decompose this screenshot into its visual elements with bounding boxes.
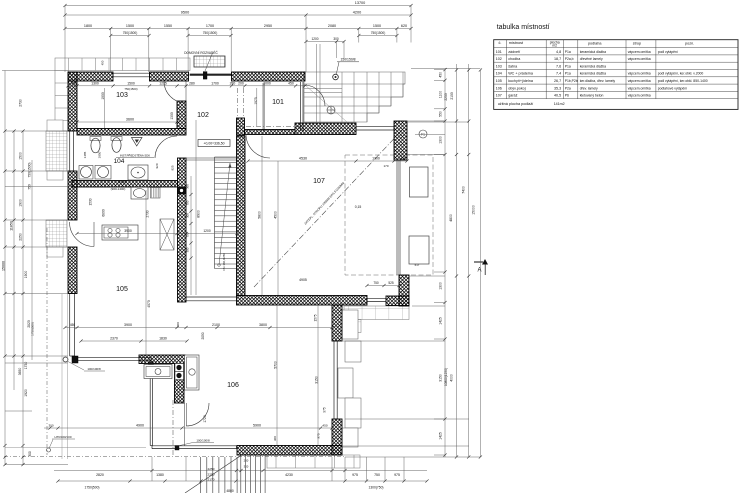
svg-text:vápcem.omítka: vápcem.omítka — [628, 57, 651, 61]
svg-text:4230: 4230 — [285, 473, 293, 477]
svg-text:šatna: šatna — [508, 64, 518, 68]
svg-text:975: 975 — [317, 433, 321, 438]
svg-text:1530: 1530 — [89, 198, 93, 205]
svg-text:dřev. lamely: dřev. lamely — [580, 86, 598, 90]
svg-text:100/100/8: 100/100/8 — [196, 439, 210, 443]
svg-text:450: 450 — [101, 60, 105, 65]
svg-text:170: 170 — [383, 164, 388, 168]
svg-text:975: 975 — [323, 407, 327, 413]
svg-text:200: 200 — [238, 81, 244, 85]
svg-text:4200: 4200 — [353, 10, 361, 14]
svg-text:vápcem.omítka: vápcem.omítka — [628, 79, 651, 83]
svg-text:6800: 6800 — [102, 209, 106, 217]
svg-text:4530: 4530 — [299, 156, 307, 160]
svg-text:4500: 4500 — [274, 211, 278, 219]
svg-text:2100: 2100 — [450, 92, 454, 100]
svg-text:2250: 2250 — [208, 473, 215, 477]
svg-text:2820: 2820 — [96, 473, 104, 477]
svg-text:1500: 1500 — [373, 24, 381, 28]
svg-text:m2: m2 — [552, 44, 557, 48]
svg-text:104: 104 — [496, 72, 502, 76]
svg-text:podl vytápění, ker.obkl. v.200: podl vytápění, ker.obkl. v.2000 — [658, 72, 704, 76]
svg-text:2950: 2950 — [264, 24, 272, 28]
svg-text:1750(500): 1750(500) — [84, 486, 99, 490]
svg-text:tabulka místností: tabulka místností — [497, 24, 550, 31]
svg-text:INST.PŘEDSTĚNA SDK: INST.PŘEDSTĚNA SDK — [120, 153, 150, 158]
svg-text:2730: 2730 — [146, 210, 150, 217]
svg-text:1200: 1200 — [203, 229, 211, 233]
svg-text:2250: 2250 — [444, 93, 448, 101]
svg-text:5800: 5800 — [258, 211, 262, 219]
svg-text:1900: 1900 — [24, 271, 28, 279]
svg-text:1225: 1225 — [159, 81, 167, 85]
svg-text:1485: 1485 — [83, 151, 87, 158]
svg-text:107: 107 — [496, 94, 502, 98]
svg-text:3150: 3150 — [439, 374, 443, 382]
svg-text:1100: 1100 — [439, 91, 443, 98]
svg-text:102: 102 — [496, 57, 502, 61]
svg-text:1975: 1975 — [254, 97, 258, 105]
svg-text:1800: 1800 — [84, 24, 92, 28]
svg-text:2100: 2100 — [212, 323, 220, 327]
svg-text:300: 300 — [48, 423, 53, 427]
svg-text:2080: 2080 — [328, 24, 336, 28]
svg-text:1300: 1300 — [439, 136, 443, 144]
svg-text:č.: č. — [499, 41, 502, 45]
svg-text:strop: strop — [633, 42, 641, 46]
svg-text:2370: 2370 — [110, 337, 118, 341]
svg-text:107: 107 — [313, 178, 325, 185]
svg-text:4800: 4800 — [449, 214, 453, 222]
svg-text:450: 450 — [288, 81, 294, 85]
svg-text:102: 102 — [197, 112, 209, 119]
svg-text:4905: 4905 — [299, 278, 307, 282]
svg-text:7,4: 7,4 — [556, 72, 561, 76]
svg-text:DOMOVNÍ ROZVADĚČ: DOMOVNÍ ROZVADĚČ — [184, 50, 218, 55]
svg-text:13700: 13700 — [355, 1, 366, 5]
svg-text:ker.dlažba, dřev. lamely: ker.dlažba, dřev. lamely — [580, 79, 616, 83]
svg-text:podlahové vytápění: podlahové vytápění — [658, 86, 687, 90]
svg-text:4,8: 4,8 — [556, 50, 561, 54]
svg-text:101: 101 — [496, 50, 502, 54]
svg-text:1850: 1850 — [98, 151, 102, 158]
svg-text:5900: 5900 — [253, 423, 261, 427]
svg-text:104: 104 — [114, 158, 125, 165]
svg-text:1425: 1425 — [439, 317, 443, 325]
svg-text:chodba: chodba — [508, 57, 521, 61]
svg-text:dřevěné lamely: dřevěné lamely — [580, 57, 603, 61]
svg-text:9500: 9500 — [181, 10, 189, 14]
svg-text:1920: 1920 — [24, 389, 28, 397]
svg-text:750: 750 — [185, 232, 189, 237]
svg-text:A: A — [477, 268, 481, 274]
svg-text:1700: 1700 — [211, 81, 219, 85]
svg-text:750(1500): 750(1500) — [28, 162, 32, 177]
svg-text:300: 300 — [273, 436, 277, 441]
svg-text:250: 250 — [244, 459, 249, 463]
svg-text:vápcem.omítka: vápcem.omítka — [628, 72, 651, 76]
svg-text:místnost: místnost — [509, 41, 524, 45]
svg-text:35,3: 35,3 — [554, 86, 561, 90]
svg-text:750: 750 — [373, 281, 379, 285]
svg-text:280: 280 — [189, 81, 195, 85]
svg-text:1500: 1500 — [127, 81, 135, 85]
svg-text:300: 300 — [185, 247, 189, 252]
svg-text:P2a: P2a — [565, 86, 571, 90]
svg-text:2050: 2050 — [201, 332, 205, 339]
svg-text:300: 300 — [185, 213, 189, 218]
svg-text:(2000): (2000) — [118, 180, 127, 184]
svg-text:podlaha: podlaha — [588, 42, 602, 46]
svg-text:750(1500): 750(1500) — [203, 31, 218, 35]
svg-text:26,7: 26,7 — [554, 79, 561, 83]
svg-text:3800: 3800 — [259, 323, 267, 327]
svg-text:920: 920 — [155, 163, 159, 168]
svg-text:keramická dlažba: keramická dlažba — [580, 50, 606, 54]
svg-text:150/150/8: 150/150/8 — [340, 58, 355, 62]
svg-text:3900: 3900 — [124, 229, 132, 233]
svg-text:103: 103 — [496, 64, 502, 68]
svg-text:P6: P6 — [565, 94, 569, 98]
svg-text:141m2: 141m2 — [554, 102, 565, 106]
svg-text:HTR100/100: HTR100/100 — [54, 435, 71, 439]
svg-text:750(1500): 750(1500) — [123, 31, 138, 35]
svg-text:8900: 8900 — [197, 210, 201, 218]
svg-text:1500: 1500 — [126, 24, 134, 28]
svg-text:106: 106 — [496, 86, 502, 90]
svg-text:0,15: 0,15 — [355, 205, 362, 209]
svg-text:617: 617 — [415, 263, 420, 267]
svg-text:750(1500): 750(1500) — [371, 31, 386, 35]
svg-text:vápcem.omítka: vápcem.omítka — [628, 94, 651, 98]
svg-text:100/100/8: 100/100/8 — [87, 367, 101, 371]
svg-text:280: 280 — [230, 81, 236, 85]
svg-text:kletovaný beton: kletovaný beton — [580, 94, 604, 98]
svg-text:15000: 15000 — [2, 261, 6, 271]
svg-text:2250: 2250 — [19, 233, 23, 241]
svg-text:101: 101 — [272, 99, 284, 106]
svg-text:450: 450 — [400, 156, 406, 160]
svg-text:kuchyň+jídelna: kuchyň+jídelna — [508, 79, 534, 83]
svg-text:4070: 4070 — [147, 300, 151, 308]
svg-text:1300: 1300 — [439, 282, 443, 290]
svg-text:1300: 1300 — [91, 81, 99, 85]
svg-text:10800(1250): 10800(1250) — [444, 368, 448, 386]
svg-text:750: 750 — [28, 184, 32, 190]
svg-text:1575: 1575 — [314, 314, 318, 321]
svg-text:320: 320 — [244, 465, 249, 469]
svg-text:450: 450 — [71, 81, 77, 85]
svg-text:3150: 3150 — [315, 376, 319, 384]
svg-text:4800: 4800 — [226, 489, 234, 493]
svg-text:2000: 2000 — [263, 81, 271, 85]
svg-text:450: 450 — [322, 423, 327, 427]
svg-text:1425: 1425 — [439, 432, 443, 440]
svg-text:užitná plocha podlaží: užitná plocha podlaží — [498, 102, 535, 106]
svg-text:975: 975 — [352, 473, 358, 477]
svg-text:3900: 3900 — [124, 323, 132, 327]
svg-text:P1a: P1a — [565, 72, 571, 76]
svg-text:2250: 2250 — [208, 467, 215, 471]
svg-text:1830: 1830 — [159, 337, 167, 341]
svg-text:P1a: P1a — [565, 50, 571, 54]
svg-text:4000: 4000 — [450, 374, 454, 382]
svg-text:17x 182,4/250: 17x 182,4/250 — [222, 253, 226, 271]
svg-text:1300: 1300 — [170, 112, 174, 120]
svg-text:1500: 1500 — [19, 152, 23, 160]
svg-text:P1a: P1a — [565, 64, 571, 68]
svg-text:4900: 4900 — [136, 423, 144, 427]
svg-text:+0,00=336,50: +0,00=336,50 — [204, 142, 225, 146]
svg-text:18,7: 18,7 — [554, 57, 561, 61]
svg-text:1300(750): 1300(750) — [368, 486, 383, 490]
svg-text:103: 103 — [116, 92, 128, 99]
svg-text:(900-1400): (900-1400) — [111, 187, 126, 191]
svg-text:P1b,P2b: P1b,P2b — [565, 79, 578, 83]
svg-text:300: 300 — [176, 322, 180, 327]
svg-text:550: 550 — [439, 111, 443, 117]
svg-text:3650: 3650 — [18, 368, 22, 376]
svg-text:7,6: 7,6 — [556, 64, 561, 68]
svg-text:zádveří: zádveří — [508, 50, 520, 54]
svg-text:WC + prádelna: WC + prádelna — [508, 72, 534, 76]
svg-text:105: 105 — [116, 286, 128, 293]
svg-text:vápcem.omítka: vápcem.omítka — [628, 86, 651, 90]
svg-text:300: 300 — [28, 451, 32, 457]
svg-text:450: 450 — [70, 323, 76, 327]
svg-text:40,5: 40,5 — [554, 94, 561, 98]
svg-text:pozn.: pozn. — [685, 42, 694, 46]
svg-text:P2a,b: P2a,b — [565, 57, 574, 61]
svg-text:3600: 3600 — [126, 118, 134, 122]
svg-text:1300: 1300 — [372, 156, 380, 160]
svg-text:1700: 1700 — [206, 24, 214, 28]
svg-text:360: 360 — [185, 184, 189, 189]
svg-text:15000: 15000 — [472, 205, 476, 215]
svg-text:925: 925 — [171, 165, 175, 170]
svg-text:2170: 2170 — [208, 478, 215, 482]
svg-text:keramická dlažba: keramická dlažba — [580, 64, 606, 68]
svg-text:106: 106 — [227, 382, 239, 389]
svg-text:7400: 7400 — [462, 186, 466, 194]
svg-text:1380: 1380 — [156, 473, 164, 477]
svg-text:vápcem.omítka: vápcem.omítka — [628, 50, 651, 54]
svg-text:750(1500): 750(1500) — [124, 87, 137, 91]
svg-text:garáž: garáž — [508, 94, 517, 98]
svg-text:750: 750 — [374, 473, 380, 477]
svg-text:105: 105 — [496, 79, 502, 83]
svg-text:450: 450 — [439, 72, 443, 78]
svg-text:11850: 11850 — [10, 221, 14, 231]
svg-text:1200: 1200 — [311, 37, 318, 41]
svg-text:podl vytápění, ker.obkl. 850-1: podl vytápění, ker.obkl. 850-1400 — [658, 79, 708, 83]
svg-text:750: 750 — [185, 200, 189, 205]
svg-text:keramická dlažba: keramická dlažba — [580, 72, 606, 76]
svg-text:1900: 1900 — [19, 199, 23, 207]
svg-text:300: 300 — [333, 37, 339, 41]
svg-text:2730: 2730 — [19, 99, 23, 107]
svg-text:1720: 1720 — [203, 415, 207, 423]
svg-text:975: 975 — [394, 473, 400, 477]
svg-text:1550: 1550 — [164, 24, 172, 28]
svg-text:525: 525 — [388, 281, 394, 285]
svg-text:620: 620 — [401, 24, 407, 28]
svg-text:1750(500): 1750(500) — [31, 322, 35, 336]
svg-text:podl vytápění: podl vytápění — [658, 50, 678, 54]
svg-text:1730: 1730 — [24, 362, 28, 370]
svg-text:obýv.pokoj: obýv.pokoj — [508, 86, 526, 90]
